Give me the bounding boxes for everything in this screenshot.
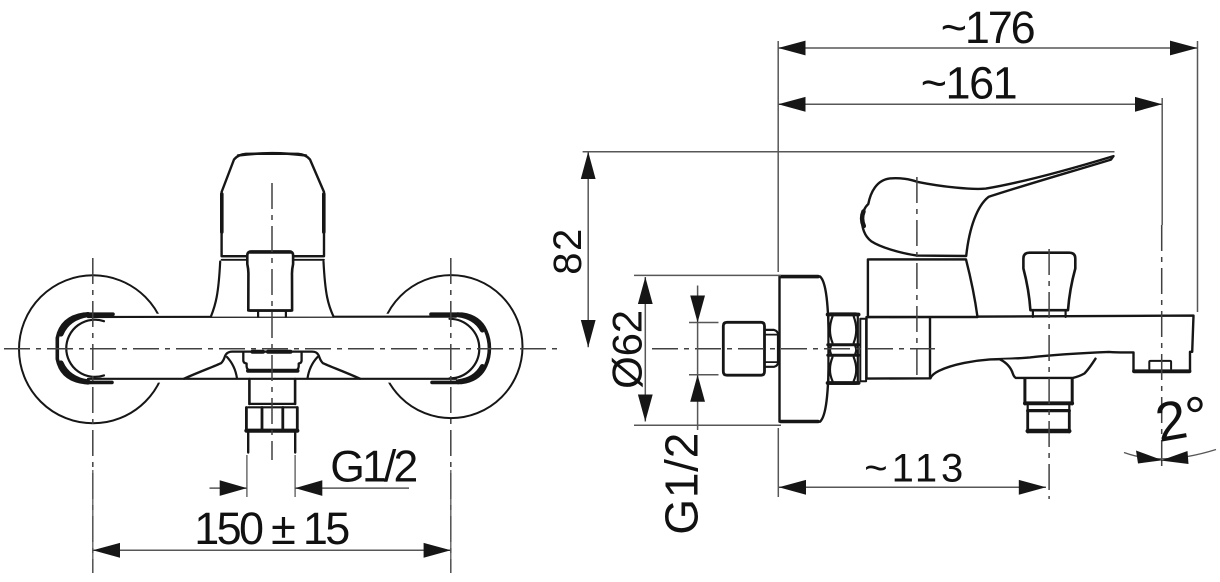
dish ring thick top dashes	[253, 350, 291, 354]
handle dome side accents	[222, 194, 324, 232]
~161 arrows	[778, 97, 805, 112]
O62 arrows	[638, 277, 653, 304]
cartridge bottom step	[250, 311, 291, 317]
dim line ~161	[778, 103, 1162, 105]
svg-text:G1/2: G1/2	[330, 443, 418, 492]
82 arrows	[581, 152, 596, 179]
shower outlet groove	[1028, 405, 1070, 411]
bar bottom edge	[88, 378, 456, 380]
vertical centerline left circle	[92, 258, 94, 573]
right union nut corner wedges	[458, 315, 482, 382]
handle top arc accent	[238, 153, 306, 155]
G1/2 side arrows (outside)	[690, 296, 705, 323]
handle flare edges	[211, 262, 334, 317]
2 deg reference dash-dot	[1161, 225, 1163, 468]
left union nut corner wedges	[61, 315, 88, 382]
dim line 150	[93, 549, 451, 551]
pipe below nut	[248, 433, 295, 453]
ext line spout tip	[1197, 41, 1199, 312]
~176 arrows	[778, 41, 805, 56]
mixer body bar (stadium) white mask	[54, 314, 492, 383]
left union nut outline	[57, 314, 113, 382]
G1/2 front arrows (outside)	[220, 480, 247, 496]
dim line 82	[587, 152, 589, 347]
cartridge housing block (side)	[868, 259, 978, 317]
vertical centerline right circle	[450, 258, 452, 573]
dim line ~113	[779, 486, 1046, 488]
svg-text:G1/2: G1/2	[655, 433, 707, 535]
wall escutcheon circle left	[19, 275, 167, 423]
connection hex nut (side)	[828, 314, 857, 384]
shower outlet upper cylinder	[1025, 379, 1072, 404]
150 arrows	[93, 543, 120, 558]
spout dish (front, under-bar detail)	[184, 352, 360, 379]
handle flare base (front)	[211, 262, 334, 317]
svg-text:82: 82	[546, 229, 590, 275]
horizontal centerline front	[4, 348, 560, 350]
~113 arrows	[779, 480, 806, 495]
dim line G1/2 front	[210, 487, 410, 489]
washer ring	[860, 319, 866, 381]
cartridge top thick edge	[250, 250, 291, 254]
left inner arc	[66, 320, 104, 377]
ext lines 150	[93, 470, 451, 573]
dim line O62	[644, 277, 646, 422]
ext lines G1/2 front	[247, 455, 295, 497]
dish ring thick bottom	[248, 369, 298, 373]
dish inner curves	[227, 357, 318, 378]
spout dish inner ring	[243, 352, 301, 371]
svg-text:2°: 2°	[1151, 384, 1214, 454]
knob base	[1031, 310, 1067, 317]
vertical centerline front cartridge	[271, 183, 273, 460]
right inner arc	[450, 319, 480, 379]
svg-text:Ø62: Ø62	[604, 310, 651, 389]
shower outlet lower cylinder	[1028, 411, 1070, 432]
lever handle (side)	[862, 156, 1113, 256]
spout latch bottom thick	[1134, 369, 1190, 373]
lever skirt line	[870, 258, 966, 260]
ext lines O62	[634, 275, 781, 425]
2 deg arc	[1124, 450, 1216, 459]
ext line wall plane top	[777, 41, 779, 272]
ext line 161 solid part	[1161, 98, 1163, 225]
right union nut outline	[431, 314, 489, 382]
outlet pipe below bar (front)	[249, 379, 295, 404]
lever front notch	[862, 212, 864, 227]
latch inner detail	[1149, 361, 1171, 369]
shower outlet boss (side)	[1000, 359, 1095, 378]
wall escutcheon circle right	[380, 275, 523, 418]
bar top edge	[88, 316, 456, 319]
handle dome (front)	[222, 154, 324, 256]
ext line ~113 left	[777, 428, 779, 497]
pipe-to-nut chamfer	[248, 404, 297, 407]
handle skirt double line	[222, 256, 324, 259]
svg-text:~113: ~113	[864, 446, 963, 490]
dim line ~176	[778, 47, 1197, 49]
connector step piece	[765, 330, 778, 367]
dim line G1/2 side	[697, 286, 699, 431]
horizontal centerline side	[652, 348, 935, 350]
vertical centerline side cartridge	[916, 177, 918, 377]
inlet connector (side)	[723, 322, 764, 375]
2 deg arrows	[1136, 451, 1163, 464]
svg-text:~176: ~176	[941, 2, 1036, 53]
svg-text:150 ± 15: 150 ± 15	[194, 503, 350, 554]
body + spout (side)	[867, 316, 1194, 379]
outlet hex nut (front)	[246, 408, 297, 431]
wall flange (side)	[780, 276, 830, 421]
ext line 82 top	[583, 151, 1115, 153]
svg-text:~161: ~161	[921, 58, 1018, 109]
ext lines G1/2 side	[689, 323, 719, 375]
diverter knob (side)	[1023, 253, 1075, 311]
body block edge	[929, 319, 931, 379]
vertical centerline side knob/outlet	[1048, 249, 1050, 499]
cartridge cover (front)	[247, 252, 293, 311]
